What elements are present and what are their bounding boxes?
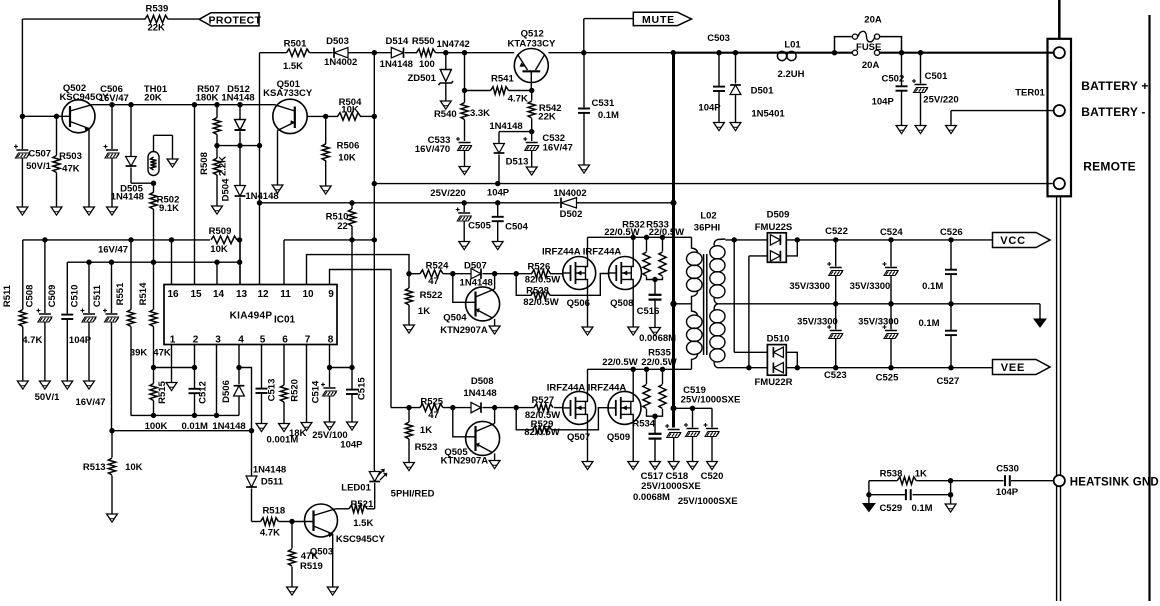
ground — [489, 461, 500, 469]
resistor R527 — [525, 395, 560, 421]
svg-text:3: 3 — [215, 335, 221, 346]
svg-text:104P: 104P — [340, 440, 363, 451]
wire pin7 — [306, 345, 308, 423]
svg-text:1N4148: 1N4148 — [245, 191, 278, 202]
ground — [301, 423, 312, 431]
wire sec bottom tap — [748, 256, 750, 368]
IC U1 KIA494P — [164, 285, 337, 345]
capacitor C501 — [912, 53, 959, 126]
svg-text:15: 15 — [190, 289, 202, 300]
ground — [945, 495, 956, 512]
inductor L01 — [777, 40, 804, 81]
ground — [279, 424, 290, 432]
wire feedback bus — [109, 428, 254, 433]
svg-text:D514: D514 — [386, 36, 409, 47]
svg-text:1N4742: 1N4742 — [437, 39, 470, 50]
svg-text:D508: D508 — [471, 376, 494, 387]
svg-text:C501: C501 — [925, 71, 948, 82]
capacitor C504 — [487, 187, 529, 241]
svg-text:1.5K: 1.5K — [283, 61, 303, 72]
ground — [287, 587, 298, 595]
wire pin10 — [307, 255, 410, 285]
ground — [212, 206, 223, 214]
terminal TER01 — [1015, 0, 1071, 196]
svg-text:VCC: VCC — [1000, 235, 1026, 247]
wire VEE rail — [725, 365, 992, 370]
svg-text:KTN2907A: KTN2907A — [440, 325, 488, 336]
svg-text:MUTE: MUTE — [642, 14, 675, 26]
wire pin12 feedback — [257, 53, 262, 285]
diode D502 — [553, 188, 586, 220]
resistor R522 — [405, 274, 442, 325]
svg-text:C527: C527 — [937, 376, 960, 387]
svg-text:47K: 47K — [62, 164, 80, 175]
svg-text:R506: R506 — [337, 141, 360, 152]
wire rail 16V — [23, 237, 243, 255]
svg-text:16: 16 — [167, 289, 179, 300]
wire pin13 — [239, 240, 241, 285]
resistor R513 — [83, 431, 143, 514]
svg-text:R519: R519 — [300, 561, 323, 572]
resistor R507 — [196, 84, 221, 146]
transistor Q505 — [441, 408, 500, 467]
resistor R521 — [336, 499, 375, 529]
svg-text:8: 8 — [328, 335, 334, 346]
svg-text:16V/470: 16V/470 — [415, 144, 450, 155]
svg-text:D504: D504 — [221, 178, 232, 201]
mosfet Q509 — [588, 369, 641, 461]
capacitor C512 — [181, 345, 208, 432]
resistor R533 — [646, 220, 684, 280]
svg-text:R538: R538 — [880, 469, 903, 480]
svg-text:1: 1 — [170, 335, 176, 346]
svg-text:10K: 10K — [125, 462, 143, 473]
svg-text:C508: C508 — [25, 285, 36, 308]
ground — [946, 126, 957, 134]
svg-text:104P: 104P — [487, 187, 510, 198]
node base wire — [20, 114, 70, 119]
svg-text:IRFZ44A: IRFZ44A — [542, 247, 581, 258]
transistor Q501 — [263, 79, 313, 185]
ground — [668, 462, 679, 470]
svg-text:Q504: Q504 — [443, 313, 467, 324]
ground — [320, 186, 331, 194]
svg-text:16V/47: 16V/47 — [99, 93, 129, 104]
capacitor C520 — [701, 408, 724, 482]
wire battery minus — [951, 111, 1054, 126]
diode D507 — [460, 260, 493, 288]
wire pin3 — [216, 345, 218, 416]
svg-text:C503: C503 — [707, 33, 730, 44]
svg-text:2.2UH: 2.2UH — [778, 69, 805, 80]
svg-text:BATTERY +: BATTERY + — [1081, 79, 1148, 93]
capacitor C533 — [415, 135, 472, 167]
svg-text:22/0.5W: 22/0.5W — [641, 357, 676, 368]
wire rail B — [67, 260, 242, 265]
capacitor C513 — [256, 345, 299, 446]
svg-text:C512: C512 — [198, 381, 209, 404]
svg-text:13: 13 — [236, 289, 248, 300]
svg-text:1K: 1K — [418, 306, 430, 317]
ground — [915, 126, 926, 134]
resistor R510 — [326, 203, 356, 368]
svg-text:4: 4 — [238, 335, 244, 346]
resistor R539 — [145, 3, 168, 33]
svg-text:C530: C530 — [996, 463, 1019, 474]
ground — [40, 381, 51, 389]
svg-text:5PHI/RED: 5PHI/RED — [391, 488, 435, 499]
svg-text:11: 11 — [280, 289, 291, 300]
wire R538 line — [869, 478, 1004, 483]
diode D510 — [734, 334, 797, 388]
svg-text:2: 2 — [193, 335, 199, 346]
svg-text:D513: D513 — [506, 156, 529, 167]
svg-text:47: 47 — [428, 410, 439, 421]
svg-text:IRFZ44A: IRFZ44A — [583, 247, 622, 258]
wire pin16 — [171, 240, 173, 285]
svg-text:D510: D510 — [767, 334, 790, 345]
svg-text:22K: 22K — [147, 22, 165, 33]
svg-text:KTA733CY: KTA733CY — [507, 39, 556, 50]
flag MUTE — [633, 12, 691, 26]
svg-text:R518: R518 — [262, 505, 285, 516]
svg-text:22/0.5W: 22/0.5W — [602, 357, 637, 368]
ground — [347, 422, 358, 430]
svg-text:C504: C504 — [505, 221, 528, 232]
capacitor C518 — [665, 408, 699, 482]
svg-text:36PHI: 36PHI — [694, 223, 720, 234]
node Q503 base — [289, 519, 294, 524]
svg-text:1K: 1K — [420, 425, 432, 436]
svg-text:10K: 10K — [210, 244, 228, 255]
resistor R523 — [405, 408, 437, 463]
svg-text:C523: C523 — [824, 370, 847, 381]
svg-text:47: 47 — [428, 276, 439, 287]
capacitor C508 — [25, 240, 61, 403]
svg-text:C507: C507 — [28, 149, 51, 160]
svg-text:FUSE: FUSE — [856, 42, 881, 53]
svg-text:1N4002: 1N4002 — [553, 188, 586, 199]
svg-text:5: 5 — [260, 335, 266, 346]
ground — [650, 462, 661, 470]
svg-text:Q508: Q508 — [610, 298, 633, 309]
resistor R528 — [516, 274, 609, 308]
svg-text:R511: R511 — [2, 284, 13, 307]
capacitor C502 — [872, 53, 908, 126]
capacitor C514 — [310, 345, 347, 442]
svg-text:C525: C525 — [876, 373, 899, 384]
svg-text:Q512: Q512 — [521, 28, 544, 39]
svg-text:0.1M: 0.1M — [922, 281, 943, 292]
node D513/C532 — [529, 129, 534, 134]
svg-text:4.7K: 4.7K — [260, 527, 280, 538]
svg-text:C515: C515 — [357, 377, 368, 400]
resistor R502 — [150, 183, 179, 262]
svg-text:KIA494P: KIA494P — [230, 311, 273, 322]
svg-text:0.1M: 0.1M — [598, 110, 619, 121]
svg-text:1K: 1K — [915, 468, 927, 479]
ground — [324, 422, 335, 430]
capacitor C529 — [879, 489, 932, 514]
wire B+ vertical — [670, 53, 676, 428]
svg-text:1.5K: 1.5K — [353, 518, 373, 529]
svg-text:IC01: IC01 — [274, 314, 296, 325]
svg-text:C505: C505 — [468, 221, 491, 232]
capacitor C532 — [523, 132, 573, 168]
svg-text:FMU22S: FMU22S — [755, 222, 792, 233]
svg-text:104P: 104P — [996, 487, 1019, 498]
svg-text:R513: R513 — [83, 462, 106, 473]
wire battery feed — [671, 50, 1054, 55]
svg-text:KSA733CY: KSA733CY — [263, 88, 313, 99]
wire pin15 — [194, 105, 196, 285]
capacitor C523 — [797, 304, 847, 381]
svg-text:9.1K: 9.1K — [159, 203, 179, 214]
svg-text:1N4148: 1N4148 — [489, 121, 522, 132]
svg-text:R524: R524 — [426, 261, 449, 272]
svg-text:22/0.5W: 22/0.5W — [649, 227, 684, 238]
resistor R506 — [322, 116, 359, 186]
svg-text:C522: C522 — [825, 226, 848, 237]
svg-text:16V/47: 16V/47 — [75, 397, 105, 408]
ground — [687, 462, 698, 470]
svg-text:C516: C516 — [637, 306, 660, 317]
capacitor C511 — [92, 262, 119, 431]
resistor R518 — [260, 505, 292, 538]
capacitor C527 — [918, 304, 959, 387]
ground — [272, 185, 283, 193]
svg-text:TER01: TER01 — [1015, 88, 1045, 99]
svg-text:R515: R515 — [157, 380, 168, 403]
wire VCC rail — [725, 237, 992, 242]
svg-text:C510: C510 — [70, 285, 81, 308]
svg-text:C514: C514 — [310, 380, 321, 403]
svg-text:HEATSINK GND: HEATSINK GND — [1070, 476, 1159, 488]
ground — [707, 462, 718, 470]
resistor R511 — [2, 240, 42, 381]
wire PROTECT net — [22, 19, 200, 116]
svg-text:R521: R521 — [351, 499, 374, 510]
svg-text:39K: 39K — [130, 347, 148, 358]
resistor R520 — [280, 345, 306, 440]
wire 12V line — [92, 102, 275, 107]
diode D509 — [749, 210, 797, 263]
svg-text:22/0.5W: 22/0.5W — [604, 227, 639, 238]
ground — [714, 123, 725, 131]
wire MUTE — [584, 19, 634, 53]
wire C529 line — [866, 481, 953, 498]
capacitor C506 — [99, 84, 129, 207]
wire 0V rail — [718, 301, 1040, 319]
capacitor C522 — [789, 226, 848, 304]
svg-text:R528: R528 — [526, 285, 549, 296]
ground — [863, 495, 875, 512]
svg-text:D507: D507 — [464, 260, 487, 271]
wire remote line — [372, 181, 1053, 186]
svg-text:50V/1: 50V/1 — [26, 161, 52, 172]
capacitor C519 — [665, 385, 740, 462]
resistor R503 — [53, 116, 82, 207]
svg-text:25V/1000SXE: 25V/1000SXE — [641, 481, 701, 492]
ground — [459, 242, 470, 250]
svg-text:C526: C526 — [940, 227, 963, 238]
ground — [489, 326, 500, 334]
svg-text:1N4148: 1N4148 — [380, 59, 413, 70]
svg-text:0.1M: 0.1M — [918, 318, 939, 329]
svg-text:82/0.5W: 82/0.5W — [524, 427, 559, 438]
svg-text:Q509: Q509 — [607, 432, 630, 443]
svg-text:R541: R541 — [491, 73, 514, 84]
svg-text:1N4002: 1N4002 — [324, 57, 357, 68]
svg-text:3.3K: 3.3K — [470, 108, 490, 119]
svg-text:REMOTE: REMOTE — [1083, 160, 1136, 174]
resistor R508 — [199, 143, 229, 206]
resistor R524 — [420, 261, 449, 288]
diode D513 — [489, 121, 531, 183]
svg-text:R527: R527 — [531, 395, 554, 406]
ground — [459, 167, 470, 175]
diode D504 — [221, 146, 279, 285]
svg-text:ZD501: ZD501 — [407, 73, 436, 84]
svg-text:22K: 22K — [538, 112, 556, 123]
resistor R550 — [412, 36, 436, 70]
transistor Q504 — [440, 274, 499, 337]
svg-text:R520: R520 — [289, 379, 300, 402]
diode D514 — [380, 36, 413, 70]
svg-text:R508: R508 — [199, 152, 210, 175]
flag VCC — [993, 233, 1051, 248]
svg-text:1N4148: 1N4148 — [253, 464, 286, 475]
ground — [526, 167, 537, 175]
svg-text:Q507: Q507 — [567, 432, 590, 443]
transformer L02 — [674, 210, 726, 369]
transistor Q503 — [292, 504, 386, 587]
svg-text:Q506: Q506 — [567, 298, 590, 309]
diode D506 — [212, 345, 245, 432]
wire pin11 to R510 — [284, 237, 377, 284]
svg-text:R534: R534 — [632, 418, 655, 429]
ground — [440, 101, 451, 109]
svg-text:R525: R525 — [420, 397, 443, 408]
terminal HEATSINK GND — [1054, 475, 1159, 488]
svg-text:L01: L01 — [784, 40, 801, 51]
svg-text:6: 6 — [282, 335, 288, 346]
capacitor C505 — [430, 188, 491, 241]
ground — [1034, 319, 1046, 327]
svg-text:25V/220: 25V/220 — [923, 94, 958, 105]
wire gate drive bottom — [391, 405, 564, 410]
ground — [650, 328, 661, 336]
resistor R542 — [528, 91, 561, 132]
svg-text:180K: 180K — [196, 93, 219, 104]
svg-text:R550: R550 — [412, 36, 435, 47]
svg-text:4.7K: 4.7K — [508, 94, 528, 105]
ground — [84, 381, 95, 389]
svg-text:25V/220: 25V/220 — [430, 188, 465, 199]
resistor R509 — [209, 226, 237, 255]
ground — [404, 325, 415, 333]
svg-text:C524: C524 — [880, 227, 903, 238]
resistor R541 — [465, 73, 532, 104]
svg-text:104P: 104P — [698, 103, 721, 114]
wire 16V vertical — [372, 53, 377, 470]
transistor Q512 — [507, 28, 556, 90]
svg-text:C529: C529 — [879, 503, 902, 514]
mosfet Q508 — [583, 237, 642, 327]
ground — [896, 126, 907, 134]
capacitor C524 — [850, 227, 904, 304]
svg-text:1N5401: 1N5401 — [751, 109, 785, 120]
svg-text:D503: D503 — [326, 36, 349, 47]
svg-text:20A: 20A — [862, 60, 880, 71]
diode D508 — [463, 376, 496, 413]
resistor R532 — [604, 220, 655, 280]
svg-text:20K: 20K — [144, 93, 162, 104]
svg-text:35V/3300: 35V/3300 — [858, 317, 899, 328]
ground — [582, 462, 593, 470]
transistor Q502 — [59, 83, 109, 207]
svg-text:9: 9 — [328, 289, 334, 300]
ground — [628, 327, 639, 335]
resistor R540 — [434, 53, 490, 141]
wire supply 12V — [260, 50, 674, 55]
resistor R504 — [338, 97, 363, 120]
svg-text:IRFZ44A: IRFZ44A — [547, 383, 586, 394]
svg-text:C513: C513 — [267, 379, 278, 402]
frame border — [1148, 15, 1150, 601]
resistor R526 — [525, 261, 560, 285]
ground — [327, 587, 338, 595]
diode D511 — [246, 431, 286, 522]
wire pin4 branch — [239, 368, 252, 431]
resistor R535 — [641, 348, 676, 417]
mosfet Q506 — [542, 237, 596, 327]
zener ZD501 — [407, 39, 469, 101]
ground — [730, 123, 741, 131]
resistor R538 — [880, 468, 927, 484]
svg-text:10: 10 — [302, 289, 314, 300]
node TH01/D505/R502 — [151, 181, 156, 186]
svg-text:2.2K: 2.2K — [218, 156, 229, 176]
svg-text:104P: 104P — [872, 97, 895, 108]
svg-text:D501: D501 — [751, 86, 774, 97]
resistor R534 — [602, 357, 655, 430]
resistor R515 — [145, 368, 168, 432]
svg-text:R522: R522 — [420, 290, 443, 301]
svg-text:18K: 18K — [289, 428, 307, 439]
svg-text:16V/47: 16V/47 — [543, 142, 573, 153]
svg-text:20A: 20A — [864, 15, 882, 26]
capacitor C531 — [578, 53, 619, 165]
ground — [84, 207, 95, 215]
ground — [579, 165, 590, 173]
resistor R514 — [138, 262, 171, 367]
ground — [51, 207, 62, 215]
svg-text:KSC945CY: KSC945CY — [336, 534, 386, 545]
svg-text:R523: R523 — [415, 442, 438, 453]
capacitor C525 — [858, 304, 899, 384]
svg-text:C531: C531 — [592, 98, 615, 109]
wire pin1 — [171, 345, 173, 383]
svg-text:25V/1000SXE: 25V/1000SXE — [681, 395, 741, 406]
svg-text:IRFZ44A: IRFZ44A — [588, 383, 627, 394]
node Q512 base — [529, 88, 534, 93]
resistor R551 — [115, 240, 147, 416]
svg-text:1N4148: 1N4148 — [111, 191, 144, 202]
diode D503 — [324, 36, 357, 68]
svg-text:R514: R514 — [138, 282, 149, 305]
svg-text:KTN2907A: KTN2907A — [441, 455, 489, 466]
